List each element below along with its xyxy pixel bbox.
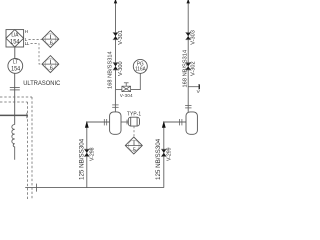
bottom header pipe: [25, 187, 164, 189]
instrument square LIA-154: [6, 30, 24, 47]
svg-text:6: 6: [50, 41, 53, 47]
svg-text:V-299: V-299: [167, 147, 173, 161]
tank roof dashed inner: [0, 101, 28, 103]
edge valve flange tick: [198, 84, 200, 90]
pipe into vessel left: [114, 90, 116, 112]
dashed signal to interlock 5: [133, 126, 135, 137]
svg-text:V-304: V-304: [120, 93, 133, 98]
wire square to LT circle: [14, 47, 16, 58]
header nozzle tick: [36, 184, 38, 192]
strainer inlet tick: [126, 120, 128, 125]
interlock diamond I-5: [125, 137, 142, 154]
interlock diamond I-6 upper: [42, 31, 59, 48]
instrument circle LT-154: [8, 59, 23, 74]
vessel right: [186, 112, 197, 134]
flange pair right vessel inlet: [179, 119, 181, 125]
internal pipe: [0, 114, 28, 116]
svg-text:V-303: V-303: [191, 30, 197, 45]
svg-text:168 NB/SS314: 168 NB/SS314: [182, 50, 188, 88]
main pipe middle: [115, 0, 117, 90]
flow arrow middle top: [114, 0, 117, 3]
strainer body: [128, 117, 139, 126]
valve V-299: [161, 149, 166, 156]
svg-text:6: 6: [50, 66, 53, 72]
branch to V-304: [116, 89, 122, 91]
valve V-304: [122, 83, 131, 92]
wire valve to PG: [131, 73, 141, 89]
stub vessel to strainer: [121, 121, 128, 123]
svg-text:154: 154: [10, 39, 20, 45]
svg-text:H: H: [25, 29, 28, 34]
gauge PG-116A: [133, 59, 147, 73]
svg-text:LL: LL: [25, 41, 30, 46]
tank wall dashed outer: [31, 97, 33, 200]
svg-text:LIA: LIA: [11, 32, 19, 38]
svg-text:ULTRASONIC: ULTRASONIC: [23, 80, 61, 87]
valve V-301: [113, 33, 118, 40]
valve V-302: [186, 63, 191, 70]
svg-text:V-300: V-300: [118, 61, 124, 76]
svg-text:168 NB/SS314: 168 NB/SS314: [108, 51, 114, 89]
svg-text:116A: 116A: [135, 66, 146, 72]
svg-text:154: 154: [11, 66, 20, 72]
interlock diamond I-6 lower: [42, 56, 59, 73]
sensor coil: [12, 125, 15, 160]
probe flange pair: [10, 87, 20, 89]
dashed signal L to interlock: [29, 38, 43, 40]
vessel left: [110, 112, 121, 134]
flange pair left vessel inlet: [103, 119, 105, 125]
vessel left top flange pair: [112, 104, 118, 106]
branch pipe right edge: [188, 86, 200, 88]
probe line: [14, 73, 16, 124]
svg-text:V-298: V-298: [90, 147, 96, 161]
flow arrow left riser: [85, 121, 89, 128]
svg-text:V-302: V-302: [191, 61, 197, 76]
internal pipe nozzle tick: [26, 113, 28, 118]
svg-text:LT: LT: [13, 59, 18, 65]
valve V-303: [186, 33, 191, 40]
tank roof dashed outer: [0, 96, 32, 98]
flow arrow right riser: [162, 121, 166, 128]
edge valve body clipped: [199, 84, 202, 89]
svg-text:5: 5: [133, 147, 136, 153]
main pipe right: [187, 0, 189, 112]
flow arrow right top: [187, 0, 190, 3]
svg-text:V-301: V-301: [118, 30, 124, 45]
riser pipe left: [87, 122, 110, 188]
svg-text:V-: V-: [197, 89, 200, 94]
svg-text:TYP-1: TYP-1: [127, 111, 141, 117]
tank wall dashed inner: [27, 102, 29, 200]
dashed signal LL route: [31, 44, 43, 64]
svg-text:125 NB/SS304: 125 NB/SS304: [79, 138, 86, 180]
vessel right top flange pair: [185, 105, 191, 107]
valve V-298: [84, 149, 89, 156]
valve V-300: [113, 63, 118, 70]
svg-text:125 NB/SS304: 125 NB/SS304: [155, 138, 162, 180]
riser pipe right: [164, 122, 186, 188]
